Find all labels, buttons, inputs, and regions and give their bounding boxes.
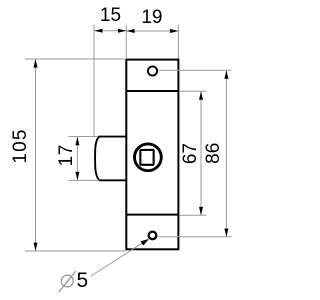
extension line body left top	[125, 25, 127, 59]
dimension line 17	[75, 137, 79, 180]
extension line body right top	[177, 25, 179, 59]
extension line bump left	[93, 25, 95, 137]
svg-text:19: 19	[141, 7, 162, 28]
extension line bump bottom	[69, 179, 100, 181]
extension line separator bottom right	[179, 214, 207, 216]
spindle boss circle	[135, 144, 162, 171]
dimension text 86	[203, 143, 224, 164]
top mounting hole	[148, 66, 157, 75]
dimension text 17	[56, 144, 77, 167]
lock case outline	[126, 60, 178, 250]
faceplate bottom separator	[126, 214, 178, 216]
diameter symbol	[59, 271, 76, 292]
extension line body bottom left	[25, 250, 126, 252]
dimension line 105	[34, 59, 38, 251]
dimension text 15	[100, 5, 121, 26]
extension line bottom hole right	[159, 236, 232, 238]
svg-text:67: 67	[180, 143, 201, 164]
svg-text:86: 86	[203, 143, 224, 164]
dimension text 67	[180, 143, 201, 164]
extension line bump top	[69, 136, 98, 138]
extension line top hole right	[159, 69, 232, 71]
svg-text:15: 15	[100, 5, 121, 26]
faceplate top separator	[126, 90, 178, 92]
diameter value 5	[76, 269, 88, 292]
extension line separator top right	[179, 90, 207, 92]
bottom mounting hole	[149, 232, 157, 240]
dimension line 15	[94, 29, 126, 33]
dimension text 105	[10, 128, 31, 163]
svg-text:5: 5	[76, 269, 88, 292]
dimension line 67	[199, 91, 203, 215]
dimension line 86	[224, 70, 228, 236]
dimension line 19	[126, 29, 178, 33]
dimension text 19	[141, 7, 162, 28]
svg-text:105: 105	[10, 128, 31, 163]
extension line body top left	[25, 58, 126, 60]
svg-text:17: 17	[56, 144, 77, 167]
square spindle hole	[140, 150, 153, 165]
latch bolt bump	[95, 137, 126, 181]
leader line diameter 5	[91, 239, 149, 276]
